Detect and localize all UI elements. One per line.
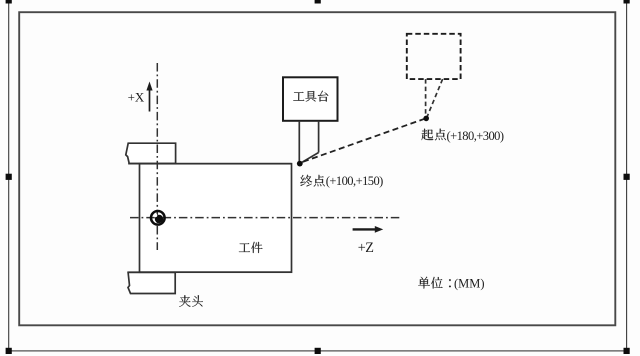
svg-text:+X: +X [128, 90, 145, 105]
svg-text:+Z: +Z [358, 240, 374, 256]
svg-text:(+100,+150): (+100,+150) [326, 174, 383, 188]
svg-text:(+180,+300): (+180,+300) [447, 129, 504, 143]
svg-text:(MM): (MM) [454, 277, 485, 291]
